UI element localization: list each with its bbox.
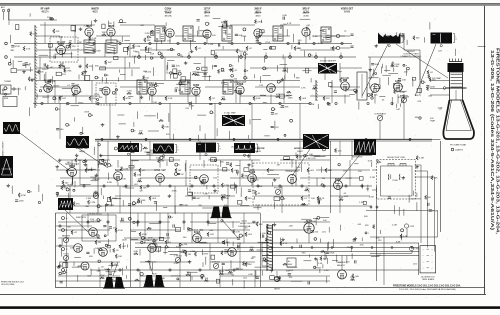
resistor R140 — [144, 283, 146, 288]
wire — [108, 173, 110, 180]
wire — [124, 39, 129, 41]
wire — [104, 43, 106, 57]
wire — [18, 61, 23, 63]
tube V16 — [371, 84, 380, 93]
svg-text:CONV: CONV — [165, 9, 172, 11]
wire — [79, 160, 81, 186]
svg-text:270K: 270K — [240, 151, 246, 153]
wire — [36, 94, 38, 99]
svg-text:V LIN: V LIN — [63, 254, 69, 256]
wire — [222, 273, 233, 275]
resistor R106 — [219, 271, 225, 275]
wire — [120, 280, 130, 282]
wire — [199, 141, 201, 160]
IF transformer T4 — [273, 26, 283, 41]
svg-text:1B3GT: 1B3GT — [274, 289, 281, 291]
wire — [108, 21, 110, 27]
terminal — [187, 228, 189, 230]
wire — [73, 262, 75, 266]
wire — [71, 175, 73, 183]
resistor R57 — [340, 78, 348, 83]
svg-text:2.2M: 2.2M — [135, 46, 140, 48]
wire — [161, 40, 163, 44]
wire — [232, 242, 234, 246]
wire — [87, 168, 96, 170]
resistor R137 — [204, 278, 209, 282]
wire — [391, 97, 393, 105]
resistor R37 — [185, 252, 191, 257]
terminal — [321, 184, 323, 186]
svg-text:LINEARITY CONTROL: LINEARITY CONTROL — [401, 55, 423, 58]
wire — [185, 195, 235, 197]
wire — [284, 75, 286, 79]
terminal — [104, 163, 107, 166]
component box — [151, 31, 154, 35]
wire — [287, 266, 297, 268]
svg-text:47K: 47K — [276, 94, 280, 96]
svg-text:10K: 10K — [118, 256, 122, 258]
tube V5 — [203, 30, 211, 38]
wire — [66, 102, 68, 105]
terminal — [98, 144, 100, 146]
wire — [227, 114, 229, 122]
resistor R14 — [253, 96, 261, 101]
terminal — [97, 99, 99, 101]
wire — [98, 267, 100, 271]
resistor R127 — [37, 70, 43, 75]
wire — [187, 187, 189, 191]
bottom page rule — [0, 293, 486, 295]
capacitor C71 — [428, 203, 429, 206]
wire — [175, 35, 205, 37]
wire — [56, 195, 95, 197]
wire — [299, 141, 301, 160]
resistor R69 — [86, 64, 93, 69]
wire — [220, 160, 222, 167]
potentiometer — [212, 262, 221, 269]
wire — [281, 186, 283, 213]
ground — [258, 34, 262, 37]
AGC dashed box — [96, 83, 116, 105]
capacitor C9 — [163, 27, 168, 32]
waveform photo pair (trapezoids) — [210, 207, 232, 222]
resistor R80 — [87, 200, 95, 205]
resistor R131 — [195, 72, 200, 76]
capacitor C77 — [214, 65, 217, 66]
capacitor C51 — [167, 233, 168, 236]
ground — [57, 265, 61, 268]
ground — [213, 189, 217, 192]
capacitor C31 — [318, 198, 322, 203]
capacitor C30 — [25, 63, 32, 66]
capacitor C37 — [237, 170, 238, 173]
svg-text:DEFLECTION YOKE: DEFLECTION YOKE — [387, 157, 405, 159]
wire — [115, 195, 160, 197]
terminal — [104, 235, 106, 237]
wire — [240, 187, 242, 193]
terminal — [340, 56, 343, 59]
terminal — [8, 62, 11, 65]
wire — [94, 147, 96, 150]
wire — [107, 141, 109, 160]
svg-text:470K: 470K — [107, 182, 113, 184]
wire — [346, 89, 353, 91]
wire — [398, 207, 400, 216]
wire — [93, 150, 95, 155]
svg-text:120K: 120K — [394, 64, 400, 66]
terminal — [451, 148, 454, 151]
wire — [325, 255, 327, 259]
wire — [149, 222, 161, 224]
wire — [316, 259, 318, 266]
resistor R81 — [61, 185, 69, 190]
wire — [406, 69, 408, 76]
terminal — [189, 138, 191, 140]
resistor R104 — [320, 256, 327, 261]
wire — [149, 95, 151, 100]
capacitor C27 — [71, 84, 80, 87]
terminal — [243, 52, 246, 55]
resistor R97 — [266, 225, 273, 230]
terminal — [277, 138, 279, 140]
tube V21 — [200, 175, 209, 184]
wire — [320, 167, 322, 173]
svg-text:2ND IF: 2ND IF — [254, 9, 262, 11]
svg-text:10K: 10K — [328, 170, 332, 172]
capacitor C49 — [86, 252, 89, 253]
wire - photo pointer diagonal — [362, 44, 388, 96]
wire — [323, 37, 331, 39]
wire — [312, 35, 345, 37]
svg-text:470K: 470K — [88, 170, 94, 172]
component box — [155, 246, 161, 251]
svg-text:270K: 270K — [265, 42, 271, 44]
svg-text:4BZ6: 4BZ6 — [204, 11, 210, 13]
wire — [58, 221, 100, 223]
wire — [230, 24, 255, 26]
svg-text:47K: 47K — [187, 231, 191, 233]
terminal — [159, 221, 161, 223]
resistor R126 — [283, 263, 288, 265]
wire — [339, 225, 341, 231]
capacitor C45 — [188, 229, 191, 230]
wire — [295, 160, 297, 186]
capacitor C8 — [283, 15, 288, 20]
wire — [190, 273, 192, 282]
wire — [250, 67, 320, 69]
wire — [78, 102, 83, 104]
bottom thick black bar — [0, 306, 500, 309]
terminal — [407, 67, 410, 70]
wire — [310, 95, 350, 97]
wire — [185, 160, 187, 186]
resistor R83 — [157, 158, 164, 163]
resistor R70 — [28, 77, 36, 82]
wire — [215, 49, 240, 51]
wire — [315, 218, 317, 225]
wire — [257, 37, 259, 44]
wire — [166, 161, 168, 166]
wire — [309, 31, 311, 40]
terminal — [221, 68, 224, 71]
wire — [139, 80, 141, 103]
terminal — [304, 155, 306, 157]
wire — [39, 57, 41, 80]
resistor R114 — [384, 34, 391, 39]
resistor R66 — [81, 71, 83, 76]
svg-text:1M: 1M — [139, 191, 142, 193]
wire — [271, 182, 273, 186]
terminal — [289, 56, 292, 59]
tube V6 — [254, 29, 262, 37]
wire — [350, 246, 352, 252]
wire - photo pointer diagonal — [222, 220, 238, 238]
terminal — [188, 56, 191, 59]
svg-text:1M: 1M — [69, 40, 72, 42]
wire — [225, 21, 227, 27]
component box — [99, 159, 103, 163]
tube V31 — [228, 248, 237, 257]
wire — [210, 261, 255, 263]
wire — [122, 200, 124, 206]
resistor R19 — [175, 168, 181, 173]
wire — [64, 66, 66, 72]
wire — [128, 95, 133, 97]
terminal — [67, 102, 69, 104]
svg-text:270K: 270K — [257, 21, 263, 23]
wire — [313, 217, 318, 219]
wire — [92, 64, 94, 70]
wire — [123, 242, 125, 249]
resistor R9 — [59, 96, 67, 101]
component box — [231, 185, 236, 188]
capacitor C69 — [128, 204, 136, 207]
terminal — [105, 244, 107, 246]
terminal — [271, 108, 274, 111]
resistor R85 — [334, 148, 342, 153]
ground — [94, 19, 98, 22]
potentiometer — [62, 236, 71, 243]
terminal — [53, 97, 56, 100]
wire — [53, 85, 59, 87]
ground — [402, 176, 406, 179]
wire - photo pointer diagonal — [415, 44, 436, 96]
wire — [326, 258, 328, 264]
wire — [74, 181, 76, 187]
tube V25 — [89, 228, 98, 237]
terminal — [199, 269, 201, 271]
wire - photo pointer diagonal — [65, 210, 88, 232]
wire — [145, 55, 147, 60]
capacitor C80 — [110, 280, 119, 283]
resistor R1 — [23, 46, 31, 51]
wire — [339, 186, 341, 213]
tube V3 4BZ6 — [107, 25, 115, 36]
terminal — [314, 238, 317, 241]
wire — [90, 180, 98, 182]
resistor R17 — [85, 168, 94, 173]
wire — [198, 135, 200, 141]
wire — [369, 83, 371, 89]
terminal — [175, 173, 178, 176]
wire — [261, 271, 263, 276]
ground — [72, 93, 76, 96]
wire — [204, 57, 206, 80]
terminal — [231, 42, 233, 44]
section divider bus (double line) — [95, 138, 432, 140]
wire — [349, 94, 355, 96]
wire — [237, 246, 239, 250]
resistor R138 — [221, 251, 228, 256]
tube V22 6AU8 — [248, 169, 257, 182]
terminal — [265, 56, 268, 59]
ground — [6, 184, 10, 187]
tube V20 — [154, 170, 166, 182]
terminal — [338, 163, 340, 165]
svg-text:6.8K: 6.8K — [96, 51, 101, 53]
resistor R48 — [89, 36, 97, 41]
resistor R101 — [228, 270, 233, 274]
resistor R136 — [242, 261, 248, 266]
terminal — [189, 102, 191, 104]
svg-text:4.5 MC TRAP: 4.5 MC TRAP — [224, 112, 236, 115]
terminal — [169, 185, 171, 187]
resistor R23 — [325, 168, 332, 173]
antenna input terminals — [1, 6, 57, 20]
capacitor C16 — [271, 113, 278, 116]
svg-text:HEIGHT: HEIGHT — [62, 236, 71, 238]
tube V10 — [102, 87, 110, 95]
terminal — [184, 250, 187, 253]
wire — [163, 251, 168, 253]
resistor R121 — [431, 175, 438, 180]
wire — [333, 239, 335, 248]
svg-text:6.8K: 6.8K — [394, 66, 399, 68]
wire - mid row bus 2 — [60, 205, 372, 207]
flyback transformer winding — [267, 224, 273, 271]
wire — [332, 260, 338, 262]
svg-text:YOKE: YOKE — [392, 180, 398, 182]
resistor R71 — [30, 31, 38, 36]
svg-text:TUNER: TUNER — [4, 81, 12, 83]
resistor R93 — [143, 147, 148, 149]
wire — [264, 56, 266, 63]
terminal — [50, 18, 52, 20]
resistor R109 — [233, 229, 241, 234]
wire — [112, 198, 121, 200]
wire — [167, 213, 169, 243]
resistor R24 — [109, 196, 118, 201]
resistor R5 — [195, 46, 202, 51]
wire — [2, 89, 4, 96]
wire — [202, 207, 213, 209]
wire — [291, 280, 303, 282]
wire — [412, 191, 414, 196]
wire — [423, 37, 425, 42]
terminal — [205, 22, 208, 25]
resistor R75 — [305, 187, 310, 191]
terminal — [66, 123, 69, 126]
component box — [111, 278, 116, 281]
svg-text:TERM. BOARD: TERM. BOARD — [422, 278, 435, 281]
wire — [260, 20, 262, 23]
wire — [163, 207, 167, 209]
terminal — [149, 42, 151, 44]
tube V2 4BZ6 — [85, 25, 93, 36]
wire — [296, 239, 298, 244]
wire — [152, 263, 154, 271]
svg-text:4CB6: 4CB6 — [303, 11, 309, 13]
resistor R77 — [73, 202, 80, 207]
capacitor C34 — [147, 153, 154, 156]
svg-text:13-G-205, 13-G-206 (Codes 334-: 13-G-205, 13-G-206 (Codes 334-5-A61CA,33… — [399, 288, 456, 291]
wire — [263, 48, 267, 50]
svg-text:33K: 33K — [323, 258, 327, 260]
wire — [258, 241, 269, 243]
wire — [324, 252, 326, 260]
terminal — [178, 53, 180, 55]
svg-text:4BQ7A: 4BQ7A — [164, 10, 172, 13]
terminal — [179, 244, 181, 246]
wire — [30, 67, 32, 72]
wire — [127, 244, 129, 247]
wire - heater rail — [90, 269, 419, 271]
wire — [187, 80, 189, 103]
terminal — [169, 269, 171, 271]
capacitor C29 — [11, 46, 20, 49]
capacitor C28 — [398, 79, 407, 82]
IF transformer T8 — [223, 80, 233, 94]
capacitor C13 — [218, 43, 219, 46]
tuner box — [1, 85, 22, 107]
wires row3 — [71, 183, 73, 187]
capacitor C67 — [15, 200, 24, 203]
waveform photo W9 — [354, 139, 376, 155]
ground — [105, 203, 109, 206]
wire — [169, 103, 171, 139]
terminal — [371, 247, 373, 249]
terminal — [115, 89, 117, 91]
terminal — [219, 102, 221, 104]
wire — [248, 135, 250, 139]
wire — [217, 213, 219, 243]
wire — [126, 275, 128, 279]
wire — [200, 229, 250, 231]
resistor R60 — [217, 69, 225, 74]
resistor R68 — [282, 68, 287, 72]
wire — [140, 261, 190, 263]
ground — [107, 268, 111, 271]
capacitor C63 — [387, 36, 396, 39]
svg-text:10K: 10K — [238, 35, 242, 37]
svg-text:2.2M: 2.2M — [127, 91, 132, 93]
terminal — [119, 42, 121, 44]
capacitor C56 — [103, 225, 106, 226]
wire — [108, 272, 110, 280]
wire — [109, 249, 111, 252]
wire — [367, 185, 369, 192]
wire — [65, 260, 67, 268]
svg-text:4BZ6: 4BZ6 — [92, 11, 98, 13]
wire — [198, 35, 208, 37]
wire — [317, 104, 319, 109]
svg-text:120K: 120K — [19, 201, 25, 203]
terminal — [160, 156, 163, 159]
shielded cable (hatched) — [35, 25, 37, 108]
wire — [54, 48, 56, 51]
terminal — [370, 206, 372, 208]
tube V9 — [72, 86, 81, 95]
